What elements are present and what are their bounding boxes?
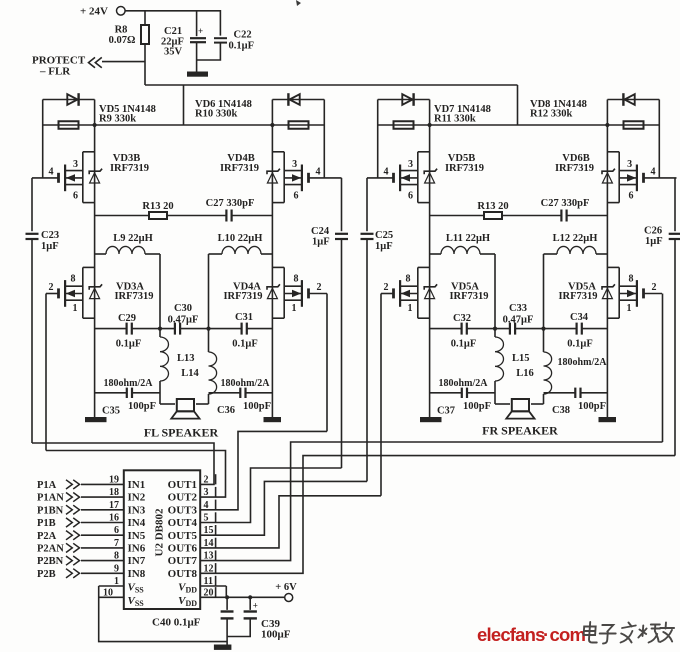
- svg-text:1μF: 1μF: [375, 241, 393, 252]
- svg-text:0.47μF: 0.47μF: [503, 315, 534, 326]
- svg-text:IN5: IN5: [128, 530, 146, 542]
- svg-text:OUT8: OUT8: [168, 568, 198, 580]
- svg-text:P2A: P2A: [37, 531, 57, 542]
- capacitor C23 1uF: [31, 178, 33, 231]
- svg-text:L10 22μH: L10 22μH: [218, 233, 263, 244]
- svg-text:5: 5: [204, 513, 209, 524]
- svg-text:8: 8: [629, 274, 634, 285]
- svg-text:U2 DB802: U2 DB802: [154, 508, 166, 556]
- svg-text:1: 1: [627, 303, 632, 314]
- pin 12 separator: [215, 563, 217, 573]
- svg-text:0.1μF: 0.1μF: [451, 339, 477, 350]
- svg-text:4: 4: [316, 167, 321, 178]
- svg-text:1μF: 1μF: [41, 241, 59, 252]
- speaker FR: [512, 399, 529, 411]
- svg-text:2: 2: [317, 282, 322, 293]
- wire PROTECT-FLR output: [102, 61, 145, 63]
- wire VD3A gate column: [45, 294, 47, 451]
- capacitor C22 0.1uF: [214, 37, 227, 39]
- svg-text:+ 24V: + 24V: [80, 6, 108, 18]
- ground FR right: [599, 417, 617, 422]
- wire VD6A gate column: [662, 294, 664, 443]
- svg-text:180ohm/2A: 180ohm/2A: [558, 357, 608, 368]
- svg-text:8: 8: [71, 274, 76, 285]
- ground FL right: [264, 417, 282, 422]
- pin 4 separator: [215, 500, 217, 510]
- node FL filter junction A: [158, 327, 162, 331]
- wire +24V top: [125, 11, 220, 36]
- ground below C21: [187, 72, 208, 77]
- wire VD5A gate column: [380, 294, 382, 496]
- svg-text:L16: L16: [516, 368, 534, 379]
- svg-text:OUT4: OUT4: [168, 517, 198, 529]
- svg-text:IN6: IN6: [128, 543, 146, 555]
- svg-text:0.07Ω: 0.07Ω: [109, 35, 136, 46]
- inductor L16: [543, 329, 545, 352]
- svg-text:L14: L14: [181, 368, 199, 379]
- svg-text:IN7: IN7: [128, 555, 146, 567]
- capacitor C21 22uF 35V electrolytic: [196, 11, 198, 36]
- svg-text:R13 20: R13 20: [477, 201, 508, 212]
- pin 4 OUT3 lead and route wire: [200, 431, 327, 509]
- svg-text:1: 1: [408, 303, 413, 314]
- svg-text:IRF7319: IRF7319: [555, 163, 594, 174]
- pin 17 IN3 lead: [81, 509, 124, 511]
- node FR right bridge top junction: [605, 123, 609, 127]
- node FL right bridge top junction: [270, 123, 274, 127]
- svg-text:OUT2: OUT2: [168, 492, 198, 504]
- svg-text:OUT5: OUT5: [168, 530, 198, 542]
- svg-text:C33: C33: [509, 303, 527, 314]
- svg-text:6: 6: [73, 191, 78, 202]
- svg-text:100pF: 100pF: [463, 401, 491, 412]
- pin 13 separator: [215, 550, 217, 560]
- wire +24V distribution rail: [145, 84, 518, 86]
- svg-text:100μF: 100μF: [261, 629, 291, 641]
- svg-text:R11 330k: R11 330k: [434, 114, 476, 125]
- pin 13 OUT7 lead and route wire: [200, 442, 662, 561]
- scan artifact top middle: [296, 0, 301, 6]
- node FR filter junction B: [541, 327, 545, 331]
- capacitor C39 100uF electrolytic: [248, 595, 252, 599]
- diode VD7 (1N4148): [378, 99, 430, 101]
- arrow input P2B: [66, 569, 72, 578]
- svg-text:R10 330k: R10 330k: [195, 109, 237, 120]
- diode VD8 (1N4148): [607, 99, 659, 101]
- svg-text:4: 4: [651, 167, 656, 178]
- svg-text:C32: C32: [453, 313, 471, 324]
- pin 3 separator: [215, 487, 217, 497]
- svg-text:IN2: IN2: [128, 492, 146, 504]
- resistor R13 20 (FR): [430, 215, 484, 217]
- capacitor C31 0.1uF: [180, 328, 242, 330]
- svg-text:P2BN: P2BN: [37, 556, 64, 567]
- svg-text:17: 17: [109, 500, 119, 511]
- svg-text:14: 14: [204, 538, 214, 549]
- diode VD6 (1N4148): [272, 99, 324, 101]
- pin 15 separator: [215, 525, 217, 535]
- svg-text:16: 16: [109, 513, 119, 524]
- arrow input P1A: [66, 480, 72, 489]
- arrow input P1B: [66, 518, 72, 527]
- ground FL left: [85, 417, 107, 422]
- inductor L10 22uH: [261, 253, 272, 255]
- svg-text:IN8: IN8: [128, 568, 146, 580]
- svg-text:3: 3: [627, 159, 632, 170]
- svg-text:OUT6: OUT6: [168, 543, 198, 555]
- pin 10 VSS lead: [99, 596, 124, 598]
- svg-text:com: com: [550, 624, 586, 645]
- svg-text:6: 6: [114, 525, 119, 536]
- svg-text:19: 19: [109, 474, 119, 485]
- pin 6 IN5 lead: [81, 534, 124, 536]
- svg-text:C29: C29: [118, 313, 136, 324]
- svg-text:C22: C22: [234, 30, 252, 41]
- svg-text:C34: C34: [570, 312, 589, 323]
- transistor VD3B upper-left P-FET (IRF7319): [83, 151, 95, 153]
- svg-text:C40 0.1μF: C40 0.1μF: [152, 617, 201, 629]
- ground IC decoupling: [214, 645, 232, 650]
- svg-text:·: ·: [543, 624, 549, 645]
- svg-text:R8: R8: [115, 25, 128, 36]
- svg-text:0.1μF: 0.1μF: [116, 339, 142, 350]
- svg-text:6: 6: [294, 191, 299, 202]
- wire FL right bridge column: [271, 100, 273, 418]
- svg-text:C24: C24: [311, 226, 330, 237]
- svg-text:8: 8: [294, 274, 299, 285]
- svg-text:9: 9: [114, 563, 119, 574]
- capacitor C38 100pF + 180ohm/2A: [544, 392, 576, 394]
- inductor L12 22uH: [596, 253, 607, 255]
- svg-text:C35: C35: [102, 406, 120, 417]
- resistor R12 330k: [607, 124, 659, 126]
- svg-text:2: 2: [652, 282, 657, 293]
- pin 14 separator: [215, 538, 217, 548]
- transistor VD3A lower-left N-FET (IRF7319): [83, 266, 95, 268]
- capacitor C26 1uF: [674, 178, 676, 231]
- svg-text:P2AN: P2AN: [37, 544, 64, 555]
- pin 5 separator: [215, 512, 217, 522]
- svg-text:IRF7319: IRF7319: [449, 291, 488, 302]
- svg-text:3: 3: [204, 487, 209, 498]
- svg-text:4: 4: [49, 167, 54, 178]
- svg-text:C27 330pF: C27 330pF: [206, 198, 255, 209]
- capacitor C30 0.47uF: [132, 328, 175, 330]
- inductor L13: [159, 329, 161, 337]
- arrow PROTECT-FLR chevrons: [89, 57, 96, 67]
- svg-text:OUT3: OUT3: [168, 504, 198, 516]
- ground FR left: [420, 417, 442, 422]
- svg-text:IRF7319: IRF7319: [445, 163, 484, 174]
- capacitor C27 330pF (FL): [167, 215, 227, 217]
- svg-text:3: 3: [408, 159, 413, 170]
- svg-text:C26: C26: [644, 226, 662, 237]
- wire FL gate node left (corner column): [42, 100, 44, 178]
- capacitor C25 1uF: [366, 178, 368, 231]
- pin 19 IN1 lead: [81, 483, 124, 485]
- svg-text:+: +: [253, 600, 258, 610]
- svg-text:11: 11: [204, 576, 213, 587]
- svg-text:R9 330k: R9 330k: [99, 114, 136, 125]
- svg-text:C30: C30: [174, 303, 192, 314]
- svg-text:35V: 35V: [164, 47, 183, 58]
- svg-text:3: 3: [292, 159, 297, 170]
- wire FL mid +24V rail: [95, 124, 273, 126]
- resistor R13 20 (FL): [95, 215, 149, 217]
- svg-text:6: 6: [408, 191, 413, 202]
- pin 16 IN4 lead: [81, 522, 124, 524]
- resistor R8 0.07ohm: [144, 11, 146, 25]
- arrow input P2BN: [66, 556, 72, 565]
- svg-text:20: 20: [204, 587, 214, 598]
- capacitor C29 0.1uF: [95, 328, 127, 330]
- capacitor C37 100pF + 180ohm/2A: [430, 392, 462, 394]
- watermark chinese characters: [583, 622, 675, 644]
- pin 2 OUT1 lead and route wire: [32, 443, 214, 484]
- svg-text:C23: C23: [41, 230, 59, 241]
- wire FR mid +24V rail: [430, 124, 608, 126]
- svg-text:P1A: P1A: [37, 480, 57, 491]
- pin 2 separator: [215, 474, 217, 484]
- arrow input P2A: [66, 531, 72, 540]
- IC U2 DB802 body: [124, 470, 200, 609]
- wire VSS to ground: [99, 586, 227, 642]
- capacitor C36 100pF + 180ohm/2A: [209, 392, 241, 394]
- terminal +24V: [117, 7, 126, 16]
- svg-text:1: 1: [114, 576, 119, 587]
- svg-text:P1B: P1B: [37, 518, 56, 529]
- pin 1 VSS lead: [99, 585, 124, 587]
- pin 15 OUT5 lead and route wire: [200, 481, 367, 535]
- svg-text:1: 1: [73, 303, 78, 314]
- wire rail feed stub to FR block: [517, 85, 519, 125]
- capacitor C32 0.1uF: [430, 328, 462, 330]
- transistor VD4A lower-right N-FET (IRF7319): [272, 266, 284, 268]
- svg-text:4: 4: [204, 500, 209, 511]
- inductor L15: [494, 329, 496, 337]
- inductor L14: [208, 329, 210, 352]
- resistor R10 330k: [272, 124, 324, 126]
- svg-text:R13 20: R13 20: [142, 201, 173, 212]
- svg-text:0.1μF: 0.1μF: [229, 41, 255, 52]
- wire FR gate node right (corner column): [658, 100, 660, 178]
- transistor VD5A2 lower-right N-FET (IRF7319): [607, 266, 619, 268]
- svg-text:IN1: IN1: [128, 479, 146, 491]
- svg-text:C31: C31: [235, 312, 253, 323]
- arrow input P1BN: [66, 505, 72, 514]
- svg-text:180ohm/2A: 180ohm/2A: [221, 378, 271, 389]
- svg-text:15: 15: [204, 525, 214, 536]
- capacitor C34 0.1uF: [515, 328, 577, 330]
- svg-text:2: 2: [204, 474, 209, 485]
- svg-text:P1AN: P1AN: [37, 493, 64, 504]
- node FL filter junction B: [206, 327, 210, 331]
- transistor VD6B upper-right P-FET (IRF7319): [607, 151, 619, 153]
- svg-text:2: 2: [49, 282, 54, 293]
- svg-text:OUT7: OUT7: [168, 555, 198, 567]
- resistor R9 330k: [43, 124, 95, 126]
- svg-text:L13: L13: [177, 353, 195, 364]
- pin 12 OUT8 lead and route wire: [200, 456, 675, 574]
- svg-text:P2B: P2B: [37, 569, 56, 580]
- wire rail feed stub to FL block: [183, 85, 185, 125]
- terminal +6V: [285, 594, 293, 602]
- svg-text:100pF: 100pF: [128, 401, 156, 412]
- svg-text:8: 8: [114, 551, 119, 562]
- pin 20 VDD lead: [200, 596, 226, 598]
- svg-text:FL SPEAKER: FL SPEAKER: [144, 426, 219, 440]
- svg-text:IN3: IN3: [128, 504, 146, 516]
- svg-text:IRF7319: IRF7319: [114, 291, 153, 302]
- inductor L11 22uH: [430, 253, 441, 255]
- svg-text:IRF7319: IRF7319: [220, 163, 259, 174]
- transistor VD4B upper-right P-FET (IRF7319): [272, 151, 284, 153]
- svg-text:0.47μF: 0.47μF: [168, 315, 199, 326]
- node FR left bridge top junction: [428, 123, 432, 127]
- svg-text:1μF: 1μF: [312, 237, 330, 248]
- transistor VD5B upper-left P-FET (IRF7319): [418, 151, 430, 153]
- arrow input P1AN: [66, 493, 72, 502]
- svg-text:1μF: 1μF: [645, 236, 663, 247]
- svg-text:3: 3: [73, 159, 78, 170]
- wire FR left bridge column: [429, 100, 431, 418]
- resistor R11 330k: [378, 124, 430, 126]
- svg-text:100pF: 100pF: [578, 401, 606, 412]
- svg-text:L15: L15: [512, 353, 530, 364]
- capacitor C40 0.1uF: [225, 595, 229, 599]
- capacitor C27 330pF (FR): [502, 215, 562, 217]
- wire VDD to +6V: [225, 586, 227, 597]
- svg-text:elecfans: elecfans: [477, 624, 545, 645]
- svg-text:R12 330k: R12 330k: [530, 109, 572, 120]
- svg-text:IRF7319: IRF7319: [110, 163, 149, 174]
- svg-text:– FLR: – FLR: [39, 66, 71, 78]
- pin 9 IN8 lead: [81, 572, 124, 574]
- svg-text:8: 8: [406, 274, 411, 285]
- svg-text:180ohm/2A: 180ohm/2A: [104, 378, 154, 389]
- wire FR gate node left (corner column): [377, 100, 379, 178]
- node FL left bridge top junction: [93, 123, 97, 127]
- speaker FL: [177, 399, 194, 411]
- svg-text:C27 330pF: C27 330pF: [541, 198, 590, 209]
- svg-text:IRF7319: IRF7319: [223, 291, 262, 302]
- capacitor C33 0.47uF: [467, 328, 510, 330]
- pin 14 OUT6 lead and route wire: [200, 496, 381, 548]
- svg-text:FR SPEAKER: FR SPEAKER: [482, 424, 558, 438]
- svg-text:C21: C21: [164, 26, 182, 37]
- svg-text:C37: C37: [437, 406, 455, 417]
- svg-text:12: 12: [204, 563, 214, 574]
- svg-text:0.1μF: 0.1μF: [567, 339, 593, 350]
- svg-text:L11 22μH: L11 22μH: [446, 233, 490, 244]
- wire VD4A gate column: [326, 294, 328, 432]
- pin 5 OUT4 lead and route wire: [200, 468, 341, 523]
- svg-text:C38: C38: [552, 405, 570, 416]
- capacitor C35 100pF + 180ohm/2A: [95, 392, 127, 394]
- svg-text:0.1μF: 0.1μF: [232, 339, 258, 350]
- capacitor C24 1uF: [341, 178, 343, 231]
- svg-text:18: 18: [109, 487, 119, 498]
- svg-text:1: 1: [292, 303, 297, 314]
- pin 8 IN7 lead: [81, 560, 124, 562]
- svg-text:2: 2: [384, 282, 389, 293]
- svg-text:IRF7319: IRF7319: [558, 291, 597, 302]
- svg-text:6: 6: [629, 191, 634, 202]
- svg-text:C36: C36: [217, 405, 235, 416]
- wire FL gate node right (corner column): [323, 100, 325, 178]
- transistor VD5A lower-left N-FET (IRF7319): [418, 266, 430, 268]
- svg-text:P1BN: P1BN: [37, 505, 64, 516]
- arrow input P2AN: [66, 543, 72, 552]
- svg-text:+: +: [198, 26, 203, 36]
- svg-text:IN4: IN4: [128, 517, 146, 529]
- node FR filter junction A: [493, 327, 497, 331]
- svg-text:180ohm/2A: 180ohm/2A: [439, 378, 489, 389]
- pin 11 VDD lead: [200, 585, 226, 587]
- svg-text:C25: C25: [375, 230, 393, 241]
- diode VD5 (1N4148): [43, 99, 95, 101]
- pin 7 IN6 lead: [81, 547, 124, 549]
- wire FR right bridge column: [606, 100, 608, 418]
- svg-text:4: 4: [384, 167, 389, 178]
- svg-text:L9 22μH: L9 22μH: [113, 233, 153, 244]
- svg-text:13: 13: [204, 551, 214, 562]
- wire FL left bridge column: [94, 100, 96, 418]
- svg-text:L12 22μH: L12 22μH: [553, 233, 598, 244]
- pin 18 IN2 lead: [81, 496, 124, 498]
- svg-text:10: 10: [103, 587, 113, 598]
- svg-text:OUT1: OUT1: [168, 479, 197, 491]
- svg-text:7: 7: [114, 538, 119, 549]
- pin 3 OUT2 lead and route wire: [46, 451, 226, 498]
- svg-text:+ 6V: + 6V: [275, 582, 297, 593]
- inductor L9 22uH: [95, 253, 106, 255]
- svg-text:100pF: 100pF: [243, 401, 271, 412]
